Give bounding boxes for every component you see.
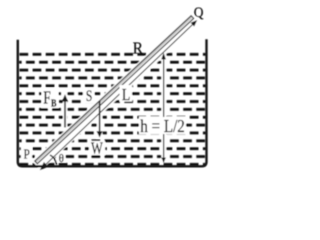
svg-text:R: R [133, 39, 143, 58]
svg-text:θ: θ [59, 153, 65, 165]
svg-text:P: P [24, 147, 30, 162]
svg-text:W: W [91, 139, 103, 158]
svg-text:B: B [51, 99, 57, 110]
svg-text:L: L [122, 85, 130, 104]
svg-text:S: S [86, 88, 93, 105]
svg-text:h = L/2: h = L/2 [140, 116, 185, 136]
svg-text:Q: Q [194, 5, 204, 21]
svg-text:F: F [43, 87, 51, 107]
